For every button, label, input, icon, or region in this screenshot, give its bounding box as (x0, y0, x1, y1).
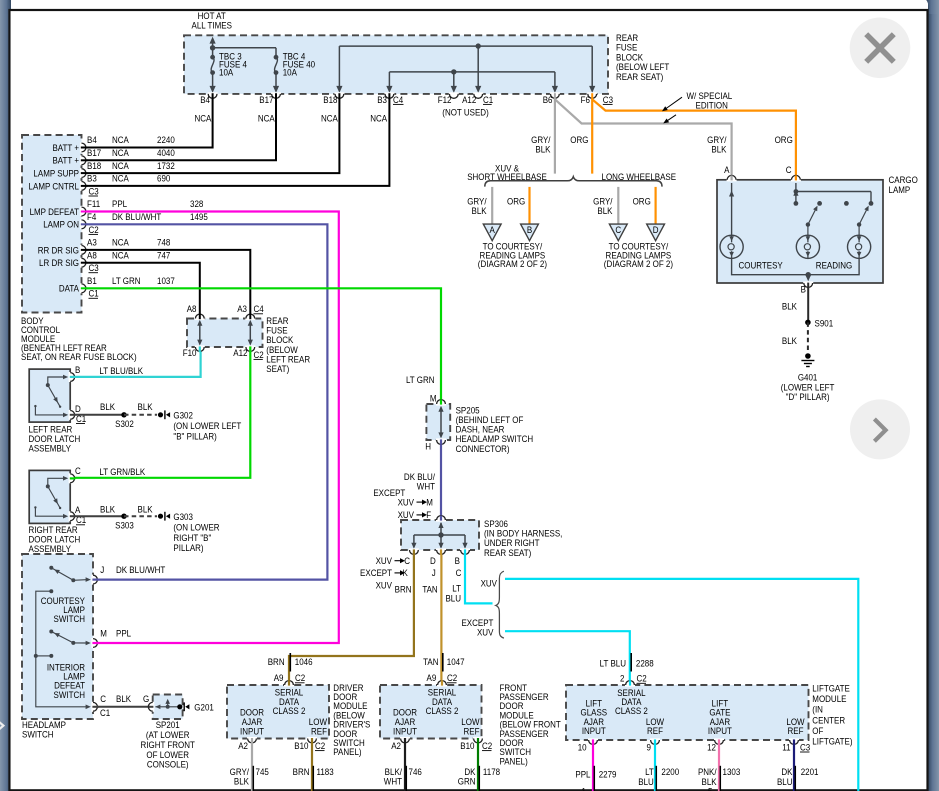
svg-text:B3: B3 (87, 173, 97, 184)
svg-text:SWITCH: SWITCH (22, 729, 53, 740)
svg-text:C3: C3 (603, 94, 613, 105)
svg-text:REF: REF (647, 725, 663, 736)
svg-text:B: B (455, 555, 460, 566)
svg-text:748: 748 (157, 237, 170, 248)
svg-text:C2: C2 (295, 673, 305, 684)
svg-text:F: F (426, 510, 431, 521)
svg-text:F10: F10 (183, 348, 197, 359)
svg-text:LONG WHEELBASE: LONG WHEELBASE (602, 171, 677, 182)
svg-text:LAMP SUPP: LAMP SUPP (33, 168, 79, 179)
svg-text:328: 328 (190, 199, 203, 210)
svg-text:K: K (403, 568, 408, 579)
svg-text:B17: B17 (87, 147, 101, 158)
svg-text:LAMP: LAMP (889, 184, 911, 195)
svg-text:10A: 10A (283, 67, 297, 78)
svg-text:REAR SEAT): REAR SEAT) (484, 547, 531, 558)
svg-text:A: A (490, 225, 495, 236)
svg-text:CONSOLE): CONSOLE) (147, 759, 189, 770)
svg-text:BATT +: BATT + (52, 155, 79, 166)
svg-text:SWITCH: SWITCH (54, 614, 85, 625)
svg-text:2: 2 (620, 673, 625, 684)
svg-text:C3: C3 (89, 186, 99, 197)
svg-text:ALL TIMES: ALL TIMES (191, 20, 232, 31)
svg-text:LAMP CNTRL: LAMP CNTRL (29, 181, 80, 192)
svg-text:PANEL): PANEL) (500, 756, 528, 767)
svg-text:WHT: WHT (417, 481, 436, 492)
svg-text:LIFTGATE: LIFTGATE (812, 683, 850, 694)
svg-text:C: C (100, 693, 106, 704)
svg-text:XUV: XUV (376, 555, 393, 566)
svg-text:BLK: BLK (234, 776, 249, 787)
svg-text:C: C (456, 568, 462, 579)
svg-text:BLK: BLK (782, 335, 797, 346)
svg-text:NCA: NCA (258, 113, 275, 124)
svg-text:A3: A3 (87, 237, 97, 248)
svg-text:"B" PILLAR): "B" PILLAR) (173, 431, 216, 442)
svg-text:B10: B10 (294, 740, 308, 751)
svg-text:BLK: BLK (702, 776, 717, 787)
svg-text:PILLAR): PILLAR) (173, 542, 203, 553)
svg-text:(NOT USED): (NOT USED) (442, 107, 489, 118)
svg-text:TAN: TAN (423, 656, 438, 667)
svg-text:D: D (430, 555, 436, 566)
svg-text:LT GRN/BLK: LT GRN/BLK (99, 467, 145, 478)
svg-text:C2: C2 (447, 673, 457, 684)
svg-text:A: A (724, 164, 729, 175)
svg-text:DK BLU/WHT: DK BLU/WHT (116, 565, 166, 576)
svg-text:(DIAGRAM 2 OF 2): (DIAGRAM 2 OF 2) (478, 259, 547, 270)
svg-text:BLK: BLK (711, 144, 726, 155)
svg-text:XUV: XUV (477, 627, 494, 638)
svg-text:SWITCH: SWITCH (54, 689, 85, 700)
svg-text:2200: 2200 (661, 767, 679, 778)
svg-text:747: 747 (157, 250, 170, 261)
svg-text:COURTESY: COURTESY (739, 260, 783, 271)
svg-text:REF: REF (788, 725, 804, 736)
svg-text:2201: 2201 (801, 767, 819, 778)
svg-text:H: H (425, 441, 431, 452)
svg-text:LT BLU: LT BLU (600, 658, 626, 669)
svg-text:DATA: DATA (59, 283, 79, 294)
svg-text:BRN: BRN (268, 656, 285, 667)
svg-text:BLK: BLK (100, 504, 115, 515)
svg-text:DK BLU/WHT: DK BLU/WHT (112, 211, 162, 222)
svg-text:LAMP ON: LAMP ON (43, 219, 79, 230)
svg-text:PPL: PPL (116, 628, 131, 639)
svg-text:BLK: BLK (116, 693, 131, 704)
svg-text:B4: B4 (87, 135, 97, 146)
svg-text:PPL: PPL (575, 769, 590, 780)
svg-text:XUV: XUV (398, 497, 415, 508)
svg-text:C: C (786, 164, 792, 175)
svg-text:D: D (653, 225, 659, 236)
svg-text:"D" PILLAR): "D" PILLAR) (786, 392, 830, 403)
svg-text:ORG: ORG (775, 134, 793, 145)
svg-text:B: B (75, 364, 80, 375)
svg-text:NCA: NCA (321, 113, 338, 124)
svg-text:C1: C1 (89, 288, 99, 299)
svg-text:CLASS 2: CLASS 2 (426, 705, 459, 716)
svg-text:INPUT: INPUT (393, 726, 418, 737)
svg-text:S302: S302 (115, 419, 134, 430)
svg-text:BLK: BLK (782, 301, 797, 312)
svg-text:G303: G303 (173, 511, 193, 522)
svg-text:BLK: BLK (138, 504, 153, 515)
svg-text:LMP DEFEAT: LMP DEFEAT (30, 206, 80, 217)
svg-text:C3: C3 (800, 742, 810, 753)
svg-text:ASSEMBLY: ASSEMBLY (29, 543, 72, 554)
svg-text:BLU: BLU (445, 593, 461, 604)
svg-text:690: 690 (157, 173, 170, 184)
svg-text:SHORT WHEELBASE: SHORT WHEELBASE (467, 171, 547, 182)
svg-text:ASSEMBLY: ASSEMBLY (29, 443, 72, 454)
svg-text:EXCEPT: EXCEPT (360, 568, 393, 579)
svg-text:NCA: NCA (370, 113, 387, 124)
svg-text:LT GRN: LT GRN (406, 374, 435, 385)
svg-text:745: 745 (256, 766, 269, 777)
svg-text:REAR SEAT): REAR SEAT) (616, 71, 663, 82)
svg-text:LT BLU/BLK: LT BLU/BLK (99, 365, 143, 376)
svg-text:(DIAGRAM 2 OF 2): (DIAGRAM 2 OF 2) (604, 259, 673, 270)
svg-text:SEAT, ON REAR FUSE BLOCK): SEAT, ON REAR FUSE BLOCK) (21, 351, 137, 362)
svg-text:ORG: ORG (570, 134, 588, 145)
svg-text:F12: F12 (438, 94, 452, 105)
svg-text:10A: 10A (219, 67, 233, 78)
svg-text:CLASS 2: CLASS 2 (273, 705, 306, 716)
svg-text:S303: S303 (115, 520, 134, 531)
svg-text:RR DR SIG: RR DR SIG (38, 245, 79, 256)
svg-text:BLK: BLK (597, 205, 612, 216)
svg-text:1495: 1495 (190, 211, 208, 222)
svg-text:C1: C1 (100, 708, 110, 719)
svg-text:CONNECTOR): CONNECTOR) (456, 443, 510, 454)
svg-text:M: M (100, 628, 107, 639)
svg-text:1047: 1047 (447, 656, 465, 667)
svg-text:NCA: NCA (112, 147, 129, 158)
svg-text:XUV: XUV (376, 580, 393, 591)
svg-text:S901: S901 (815, 318, 834, 329)
svg-text:BLK: BLK (472, 205, 487, 216)
svg-text:B: B (527, 225, 532, 236)
svg-text:2279: 2279 (599, 769, 617, 780)
svg-text:(ON LOWER LEFT: (ON LOWER LEFT (173, 421, 241, 432)
svg-text:READING: READING (816, 260, 853, 271)
svg-text:1183: 1183 (317, 766, 334, 777)
svg-text:C1: C1 (483, 94, 493, 105)
svg-text:A3: A3 (237, 304, 247, 315)
svg-text:1303: 1303 (723, 767, 741, 778)
svg-text:OF: OF (812, 725, 823, 736)
svg-text:NCA: NCA (112, 250, 129, 261)
svg-text:NCA: NCA (112, 135, 129, 146)
svg-text:INPUT: INPUT (708, 725, 733, 736)
svg-text:REF: REF (311, 726, 327, 737)
svg-text:M: M (426, 497, 433, 508)
svg-text:LR DR SIG: LR DR SIG (39, 257, 79, 268)
svg-text:BRN: BRN (293, 766, 310, 777)
svg-text:G: G (143, 693, 149, 704)
svg-text:PANEL): PANEL) (333, 747, 361, 758)
svg-text:XUV: XUV (481, 578, 498, 589)
svg-text:B3: B3 (377, 94, 387, 105)
svg-text:A9: A9 (274, 673, 284, 684)
svg-text:1046: 1046 (295, 656, 313, 667)
svg-text:A8: A8 (187, 304, 197, 315)
svg-text:B6: B6 (543, 94, 553, 105)
svg-text:A12: A12 (462, 94, 476, 105)
svg-text:BRN: BRN (395, 584, 412, 595)
svg-text:LT: LT (452, 583, 461, 594)
svg-text:11: 11 (782, 742, 790, 753)
svg-text:BLK: BLK (138, 402, 153, 413)
svg-text:B4: B4 (200, 94, 210, 105)
svg-text:C2: C2 (482, 740, 492, 751)
svg-text:G201: G201 (194, 702, 214, 713)
svg-text:WHT: WHT (384, 776, 403, 787)
svg-text:REF: REF (464, 726, 480, 737)
svg-text:J: J (432, 568, 436, 579)
svg-text:NCA: NCA (112, 173, 129, 184)
svg-text:2240: 2240 (157, 135, 175, 146)
svg-text:C3: C3 (89, 262, 99, 273)
svg-text:CLASS 2: CLASS 2 (615, 706, 648, 717)
svg-text:B17: B17 (259, 94, 273, 105)
svg-text:CENTER: CENTER (812, 715, 845, 726)
svg-text:INPUT: INPUT (240, 726, 265, 737)
svg-text:NCA: NCA (195, 113, 212, 124)
svg-text:A12: A12 (233, 348, 247, 359)
svg-text:GRN: GRN (458, 776, 476, 787)
svg-text:1037: 1037 (157, 275, 175, 286)
svg-text:2288: 2288 (636, 658, 654, 669)
svg-text:F4: F4 (87, 211, 96, 222)
svg-text:C: C (404, 555, 410, 566)
svg-text:LT GRN: LT GRN (112, 275, 141, 286)
svg-text:MODULE: MODULE (812, 693, 846, 704)
svg-text:EDITION: EDITION (696, 100, 728, 111)
svg-text:BATT +: BATT + (52, 142, 79, 153)
svg-text:4040: 4040 (157, 147, 175, 158)
svg-text:C2: C2 (254, 349, 264, 360)
svg-text:RIGHT "B": RIGHT "B" (173, 532, 211, 543)
svg-text:A8: A8 (87, 250, 97, 261)
svg-text:NCA: NCA (112, 160, 129, 171)
svg-text:B18: B18 (323, 94, 337, 105)
svg-text:BLU: BLU (777, 776, 793, 787)
svg-text:9: 9 (647, 742, 652, 753)
svg-text:A2: A2 (391, 740, 401, 751)
svg-text:C2: C2 (637, 673, 647, 684)
svg-text:TAN: TAN (422, 584, 437, 595)
svg-text:F6: F6 (581, 94, 590, 105)
svg-text:XUV: XUV (398, 510, 415, 521)
svg-text:LIFTGATE): LIFTGATE) (812, 736, 852, 747)
svg-text:1178: 1178 (483, 766, 500, 777)
svg-text:BLU: BLU (638, 776, 654, 787)
svg-text:F11: F11 (87, 199, 100, 210)
svg-text:12: 12 (707, 742, 716, 753)
svg-text:J: J (100, 565, 104, 576)
svg-text:C4: C4 (254, 304, 264, 315)
svg-text:B: B (801, 284, 806, 295)
svg-text:C4: C4 (393, 94, 403, 105)
svg-text:INPUT: INPUT (582, 725, 607, 736)
svg-text:ORG: ORG (633, 196, 651, 207)
svg-text:C: C (75, 465, 81, 476)
svg-text:C: C (615, 225, 621, 236)
svg-text:SEAT): SEAT) (266, 363, 289, 374)
svg-text:C2: C2 (315, 740, 325, 751)
svg-text:(ON LOWER: (ON LOWER (173, 522, 219, 533)
svg-text:BLK: BLK (100, 402, 115, 413)
svg-text:B10: B10 (460, 740, 474, 751)
svg-text:B1: B1 (87, 275, 97, 286)
svg-text:G302: G302 (173, 410, 193, 421)
svg-text:(IN: (IN (812, 704, 823, 715)
svg-text:PPL: PPL (112, 199, 127, 210)
svg-text:C2: C2 (89, 224, 99, 235)
svg-text:ORG: ORG (507, 196, 525, 207)
svg-text:A2: A2 (238, 740, 248, 751)
svg-text:746: 746 (409, 766, 422, 777)
svg-text:A9: A9 (427, 673, 437, 684)
svg-text:NCA: NCA (112, 237, 129, 248)
svg-text:10: 10 (578, 742, 587, 753)
svg-text:1732: 1732 (157, 160, 175, 171)
svg-text:M: M (430, 393, 437, 404)
svg-text:1: 1 (582, 786, 587, 791)
svg-text:BLK: BLK (535, 144, 550, 155)
svg-text:B18: B18 (87, 160, 101, 171)
